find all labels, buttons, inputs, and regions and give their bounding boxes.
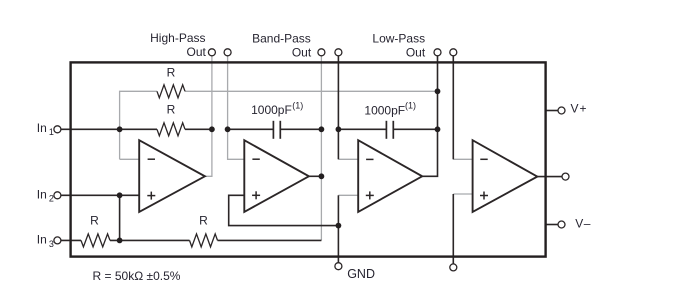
resistor R (bottom, to BP feedback): [190, 234, 218, 247]
wire: ground vertical to GND terminal: [337, 195, 339, 262]
terminal: Band-Pass Out pin: [318, 49, 325, 56]
svg-text:In: In: [37, 233, 47, 247]
junction: ground bus node: [336, 223, 342, 229]
junction: In3 resistor node: [117, 238, 123, 244]
capacitor C2 1000pF: [386, 121, 393, 139]
package outline box: [71, 62, 546, 256]
svg-text:1: 1: [49, 127, 54, 137]
wire: terminal 2 to A2 inverting input (gray): [228, 56, 245, 160]
svg-text:In: In: [37, 188, 47, 202]
svg-text:(1): (1): [292, 100, 303, 110]
terminal: In3: [54, 237, 61, 244]
terminal: In2: [54, 192, 61, 199]
wire: A1 inverting input stub (gray): [120, 158, 140, 160]
svg-text:Out: Out: [187, 45, 207, 59]
terminal: GND: [335, 263, 342, 270]
svg-text:R: R: [167, 65, 176, 79]
wire: In3 to resistor: [61, 239, 81, 241]
junction: LP node on cap line: [435, 126, 441, 132]
wire: LP feedback loop left lead (gray): [120, 91, 157, 159]
terminal: In1: [54, 126, 61, 133]
junction: A2 output / BP vertical: [319, 173, 325, 179]
wire: summing resistor to HP node: [185, 128, 212, 130]
terminal: A4 input pin: [450, 49, 457, 56]
junction: BP node on cap line: [319, 126, 325, 132]
svg-text:Low-Pass: Low-Pass: [372, 31, 425, 45]
terminal: A4 output: [562, 173, 569, 180]
wire: In1 to summing resistor: [61, 128, 157, 130]
wire: A2 non-inverting input to ground bus: [229, 195, 339, 225]
terminal: A3 input pin: [335, 49, 342, 56]
svg-text:In: In: [37, 121, 47, 135]
wire: A3 inverting input stub (gray): [338, 158, 359, 160]
junction: A3 inverting node on cap line: [336, 126, 342, 132]
resistor R (summing, on In1 line): [157, 123, 185, 136]
svg-text:3: 3: [49, 239, 54, 249]
wire: terminal 6 vertical to A4 inverting input: [452, 56, 454, 160]
svg-text:GND: GND: [347, 267, 375, 281]
wire: LP Out terminal vertical to A3 output: [422, 56, 438, 177]
junction: In2 node: [117, 192, 123, 198]
wire: In2 to A1 non-inverting input: [61, 194, 140, 196]
wire: second resistor to BP feedback vertical: [218, 239, 322, 241]
terminal: A4 non-inverting input pin: [450, 264, 457, 271]
wire: V+ stub: [546, 110, 559, 112]
svg-text:1000pF: 1000pF: [364, 104, 405, 118]
svg-text:R: R: [90, 213, 99, 227]
wire: BP Out terminal vertical down to In3 resistor net (gray): [320, 56, 322, 241]
wire: capacitor C2 to LP node: [393, 128, 437, 130]
wire: In3 resistor to second resistor: [110, 239, 190, 241]
wire: A4 non-inverting input vertical to bottom terminal: [452, 194, 454, 264]
terminal: V-: [558, 221, 565, 228]
op-amp A4: [473, 140, 538, 212]
terminal: V+: [558, 107, 565, 114]
wire: terminal 4 vertical to A3 inverting input: [337, 56, 339, 160]
wire: A4 non-inverting input stub (gray): [453, 193, 473, 195]
op-amp A2: [244, 140, 309, 212]
svg-text:Band-Pass: Band-Pass: [252, 31, 311, 45]
svg-text:V–: V–: [575, 216, 591, 230]
junction: In1 summing node: [117, 126, 123, 132]
terminal: A2 input pin: [224, 49, 231, 56]
terminal: High-Pass Out pin: [208, 49, 215, 56]
wire: A2 input node to capacitor C1: [228, 128, 274, 130]
wire: A3 input node to capacitor C2: [338, 128, 386, 130]
wire: LP feedback loop right lead to LP node (gray): [185, 90, 438, 92]
svg-text:Out: Out: [406, 45, 426, 59]
wire: A4 inverting input stub (gray): [453, 158, 473, 160]
svg-text:Out: Out: [292, 45, 312, 59]
terminal: Low-Pass Out pin: [434, 49, 441, 56]
svg-text:High-Pass: High-Pass: [150, 31, 205, 45]
capacitor C1 1000pF: [273, 121, 280, 139]
wire: In2 node to In3 node vertical link: [119, 195, 121, 240]
resistor R (In3 input): [81, 234, 110, 247]
wire: HP Out terminal to A1 output (gray vertical): [205, 56, 212, 177]
wire: A4 output to output terminal: [537, 176, 562, 178]
svg-text:R: R: [167, 103, 176, 117]
wire: A2 output stub: [308, 175, 321, 177]
svg-text:1000pF: 1000pF: [251, 103, 292, 117]
op-amp A3: [358, 140, 422, 212]
resistor R (LP feedback, top): [157, 85, 185, 98]
svg-text:R: R: [199, 214, 208, 228]
junction: LP feedback at LP vertical: [435, 88, 441, 94]
svg-text:(1): (1): [405, 101, 416, 111]
svg-text:2: 2: [49, 194, 54, 204]
svg-text:V+: V+: [571, 102, 588, 116]
junction: HP out node on In1 line: [209, 126, 215, 132]
svg-text:R = 50kΩ ±0.5%: R = 50kΩ ±0.5%: [93, 269, 181, 283]
op-amp A1: [139, 140, 205, 212]
wire: A3 non-inverting input stub (gray): [338, 194, 359, 196]
junction: A2 inverting node on cap line: [225, 126, 231, 132]
wire: capacitor C1 to BP node: [280, 128, 321, 130]
wire: V- stub: [546, 224, 559, 226]
